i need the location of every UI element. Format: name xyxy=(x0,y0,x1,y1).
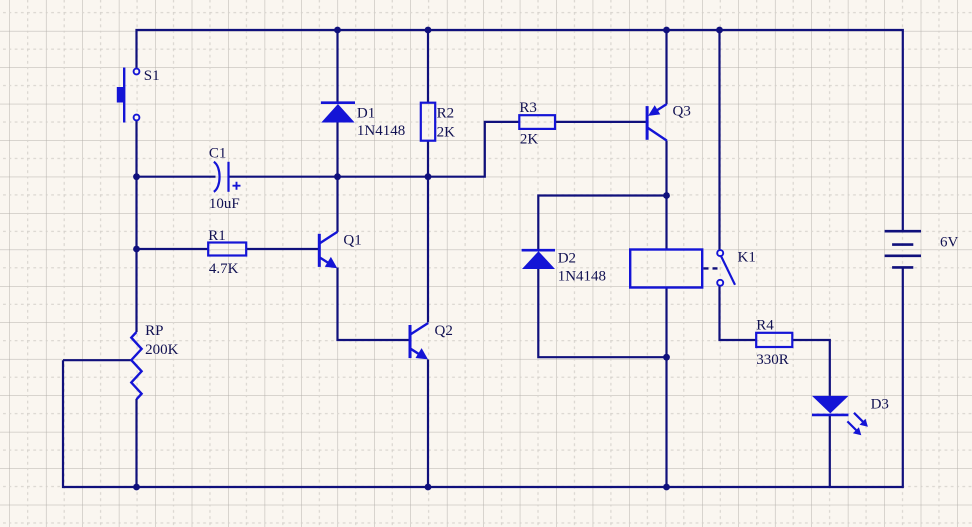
wire top rail xyxy=(137,30,903,231)
svg-text:K1: K1 xyxy=(738,249,756,265)
wire Q3 emitter top xyxy=(665,30,667,104)
node top rail / D1 xyxy=(334,27,341,34)
LED D3 xyxy=(812,396,868,435)
diode D2 xyxy=(522,250,555,269)
node R1 branch xyxy=(133,246,140,253)
svg-text:Q3: Q3 xyxy=(673,104,691,120)
svg-text:4.7K: 4.7K xyxy=(209,261,239,277)
wire R2 bottom to Q2 collector xyxy=(427,141,429,323)
capacitor C1 xyxy=(214,162,241,192)
resistor R3 xyxy=(519,115,555,129)
svg-text:RP: RP xyxy=(145,323,163,339)
wire R4 right to D3 xyxy=(792,340,830,396)
wire ground rail and RP loop xyxy=(63,267,903,487)
node ground / relay xyxy=(663,484,670,491)
svg-text:2K: 2K xyxy=(437,125,456,141)
svg-text:C1: C1 xyxy=(209,146,227,162)
svg-text:1N4148: 1N4148 xyxy=(558,268,606,284)
transistor Q3 (PNP) xyxy=(647,104,667,141)
svg-text:D3: D3 xyxy=(871,397,889,413)
wire Q2 emitter to ground xyxy=(427,360,429,488)
wire R1 left xyxy=(137,248,209,250)
svg-text:1N4148: 1N4148 xyxy=(357,123,405,139)
svg-text:2K: 2K xyxy=(520,132,539,148)
node C1 net / S1 branch xyxy=(133,173,140,180)
wire K1 bottom to R4 xyxy=(720,286,757,340)
diode D1 xyxy=(321,103,355,123)
wire Q1 emitter to Q2 base xyxy=(338,268,409,341)
wire D3 bottom xyxy=(829,415,831,487)
svg-text:330R: 330R xyxy=(756,352,789,368)
resistor R4 xyxy=(756,333,792,347)
node top rail / R2 xyxy=(425,27,432,34)
wire R3 right to Q3 base xyxy=(555,121,646,123)
node C1 net / R2 xyxy=(425,173,432,180)
relay K1 linkage dashed xyxy=(704,267,719,269)
svg-text:R4: R4 xyxy=(756,317,774,333)
resistor R1 xyxy=(208,243,246,256)
wire relay coil top xyxy=(665,196,667,251)
switch S1 xyxy=(117,68,140,123)
svg-text:R3: R3 xyxy=(519,100,537,116)
wire K1 top xyxy=(718,30,720,250)
relay K1 switch contacts xyxy=(717,250,735,286)
node ground / Q2 xyxy=(425,484,432,491)
node relay bottom / D2 xyxy=(663,354,670,361)
svg-text:D1: D1 xyxy=(357,105,375,121)
svg-text:D2: D2 xyxy=(558,250,576,266)
node Q3 collector / relay xyxy=(663,192,670,199)
wire node to D2 top xyxy=(538,196,666,251)
wire D1 bottom to node xyxy=(336,123,338,177)
wire S1 bottom to RP top xyxy=(135,120,137,332)
svg-text:Q2: Q2 xyxy=(435,323,453,339)
node ground / RP xyxy=(133,484,140,491)
wire R2 top xyxy=(427,30,429,103)
wire relay coil bottom to ground xyxy=(665,287,667,487)
node C1 net / D1 xyxy=(334,173,341,180)
wire R1 right to Q1 base xyxy=(246,248,318,250)
node top rail / K1 xyxy=(716,27,723,34)
wire RP wiper xyxy=(63,359,131,361)
wire Q1 collector xyxy=(336,177,338,232)
potentiometer RP zigzag xyxy=(131,332,141,399)
transistor Q2 xyxy=(410,323,428,359)
wire C1 left xyxy=(137,176,216,178)
transistor Q1 xyxy=(319,232,337,268)
svg-text:Q1: Q1 xyxy=(343,233,361,249)
svg-text:R1: R1 xyxy=(208,228,226,244)
wire C1 right to R3 xyxy=(229,122,520,177)
node top rail / Q3 xyxy=(663,27,670,34)
wire D1 top xyxy=(336,30,338,103)
svg-text:10uF: 10uF xyxy=(209,196,240,212)
svg-text:S1: S1 xyxy=(144,68,160,84)
svg-text:6V: 6V xyxy=(940,235,959,251)
wire RP bottom to ground rail xyxy=(135,399,137,487)
relay K1 coil box xyxy=(630,250,702,288)
svg-text:200K: 200K xyxy=(145,342,179,358)
resistor R2 xyxy=(421,103,435,141)
wire Q3 collector to node xyxy=(665,141,667,196)
svg-text:R2: R2 xyxy=(437,105,455,121)
battery 6V xyxy=(885,231,921,267)
wire D2 bottom link xyxy=(538,269,666,357)
